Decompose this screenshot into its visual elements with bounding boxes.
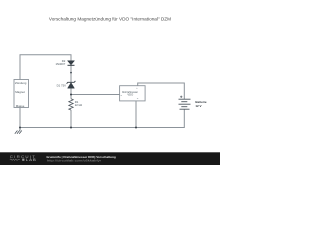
svg-text:1N4007: 1N4007 xyxy=(55,62,65,66)
svg-text:Masse: Masse xyxy=(16,104,25,108)
svg-text:LAB: LAB xyxy=(26,158,37,162)
svg-text:D1 75V: D1 75V xyxy=(57,83,66,87)
svg-text:22 kΩ: 22 kΩ xyxy=(75,103,82,107)
CircuitLab logo squiggle and LAB xyxy=(10,159,20,161)
svg-text:Magnet: Magnet xyxy=(15,90,25,94)
wire top bus from magneto box to D2 xyxy=(20,55,71,80)
pin mark - on tachometer ground pin xyxy=(137,97,138,100)
ground junction dot xyxy=(19,127,21,129)
wire tachometer supply to battery positive xyxy=(138,83,185,99)
junction dot R1/ground bus xyxy=(70,127,72,129)
node A junction dot xyxy=(70,94,72,96)
junction dot tachometer/ground bus xyxy=(135,127,137,129)
zener diode D1 75V xyxy=(67,81,76,84)
battery plus sign xyxy=(180,96,182,98)
svg-text:http://circuitlab.com/c6kkabfy: http://circuitlab.com/c6kkabfyr xyxy=(47,159,101,163)
wire R1 bottom lead to ground bus xyxy=(70,110,72,128)
chassis ground xyxy=(19,128,21,131)
svg-text:12 V: 12 V xyxy=(195,104,201,108)
magneto box (Zündung/Magnet/Masse) xyxy=(14,80,29,108)
pin junction between D2 and D1 xyxy=(70,72,72,74)
wire node A to tachometer input xyxy=(71,94,120,96)
svg-text:Vorschaltung Magnetzündung für: Vorschaltung Magnetzündung für VDO "Inte… xyxy=(49,16,171,21)
tachometer box U1 (Drehzahlmesser VDO) xyxy=(120,86,146,101)
svg-text:Zündung: Zündung xyxy=(15,81,27,85)
svg-text:VDO: VDO xyxy=(127,93,133,97)
wire tachometer ground lead xyxy=(135,101,137,128)
wire bottom ground bus and battery negative lead xyxy=(20,109,184,127)
pin mark on tachometer input pin xyxy=(121,94,122,97)
footer bar xyxy=(0,152,220,165)
wire D1 anode to node A xyxy=(70,88,72,99)
wire left lower segment xyxy=(19,108,21,128)
wire D2 cathode to D1 cathode xyxy=(70,65,72,82)
diode D2 1N4007 xyxy=(68,61,75,65)
resistor R1 22 kOhm xyxy=(69,99,73,110)
battery B1 12V xyxy=(179,98,191,100)
